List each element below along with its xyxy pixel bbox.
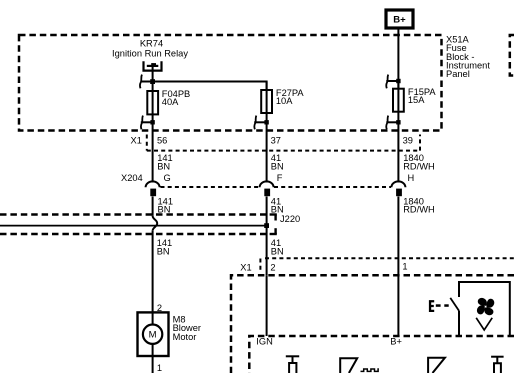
junction dot at relay/F04PB node <box>150 79 155 84</box>
wire X204 to module (1840 RD/WH run) <box>397 197 399 276</box>
junction dot J220 at wire 2 <box>264 223 269 228</box>
coil symbol (cut off, left) <box>286 356 299 373</box>
splice pack J220 dashed boundary top <box>0 215 277 221</box>
HVAC module dashed box <box>231 275 514 373</box>
splice J220 bus wire <box>0 225 267 227</box>
svg-text:Motor: Motor <box>173 332 197 342</box>
wire label 141 BN (upper) <box>157 153 173 171</box>
fuse F27PA value label <box>276 88 305 106</box>
X204 terminal arc wire 1 <box>146 181 160 187</box>
fuse F15PA value label <box>408 87 437 105</box>
svg-text:RD/WH: RD/WH <box>403 205 435 215</box>
fan variable-speed chevron <box>476 318 492 330</box>
svg-text:BN: BN <box>157 161 170 171</box>
X51A Fuse Block - Instrument Panel label <box>446 35 490 79</box>
wire 1 crossover hop at J220 <box>153 216 158 231</box>
X204 terminal arc wire 2 <box>260 181 274 187</box>
wire label 41 BN (middle) <box>271 197 284 215</box>
connector X1 bottom dotted line <box>260 258 514 271</box>
module internal wire B+ <box>397 275 399 336</box>
motor M8 box <box>138 312 169 356</box>
junction dot below F04PB <box>150 120 154 124</box>
wire hop to motor pin 2 <box>152 231 154 313</box>
svg-text:1: 1 <box>157 363 162 373</box>
svg-text:IGN: IGN <box>256 337 273 347</box>
motor M8 symbol <box>143 312 162 356</box>
svg-text:J220: J220 <box>280 214 300 224</box>
X204 terminal pin wire 1 <box>150 189 156 197</box>
svg-text:G: G <box>164 173 171 183</box>
wire label 1840 RD/WH (upper) <box>403 153 435 171</box>
driver symbol with PWM (cut off) <box>340 358 357 373</box>
feed wire from relay to fuse F27PA <box>141 82 267 91</box>
svg-text:39: 39 <box>403 135 413 145</box>
fan blade icon <box>476 297 495 316</box>
svg-text:RD/WH: RD/WH <box>403 161 435 171</box>
battery feed B+ <box>386 10 413 28</box>
svg-text:X204: X204 <box>121 173 143 183</box>
svg-text:M: M <box>149 330 157 341</box>
connector X204 dotted line <box>161 186 392 188</box>
fuse clip above F04PB <box>140 75 142 89</box>
wire motor to ground (off page) <box>152 356 154 373</box>
wire label 141 BN (middle) <box>158 197 174 215</box>
blower fan drive box <box>459 282 510 336</box>
svg-text:BN: BN <box>271 246 284 256</box>
X204 terminal arc wire 3 <box>391 181 405 187</box>
svg-text:37: 37 <box>271 135 281 145</box>
svg-text:KR74: KR74 <box>140 38 163 48</box>
splice pack J220 dashed boundary bottom <box>0 228 277 234</box>
fuse block X51A dashed box <box>19 35 442 131</box>
svg-text:B+: B+ <box>390 337 402 347</box>
coil symbol (cut off, right) <box>491 357 504 373</box>
wire label 141 BN (lower) <box>157 238 173 256</box>
unnamed module dashed box at right edge <box>510 35 514 76</box>
svg-text:10A: 10A <box>276 96 293 106</box>
wire X204 to motor (141 BN run) <box>152 197 154 216</box>
control sub-module dashed box <box>249 336 514 373</box>
junction dot below F27PA <box>264 120 268 124</box>
svg-text:F: F <box>277 173 283 183</box>
svg-text:BN: BN <box>157 246 170 256</box>
junction dot below F15PA <box>396 120 400 124</box>
fuse clip below F27PA <box>254 116 266 130</box>
svg-text:B+: B+ <box>393 14 406 25</box>
fuse F04PB <box>147 82 158 123</box>
svg-text:56: 56 <box>157 135 167 145</box>
svg-text:BN: BN <box>158 205 171 215</box>
relay KR74 contact symbol <box>144 61 162 81</box>
X204 terminal pin wire 3 <box>396 189 402 197</box>
fuse F04PB value label <box>162 89 190 107</box>
svg-text:BN: BN <box>271 161 284 171</box>
X204 terminal pin wire 2 <box>264 189 270 197</box>
junction dot above F15PA <box>396 79 400 83</box>
svg-text:2: 2 <box>270 262 275 272</box>
svg-text:Panel: Panel <box>446 69 470 79</box>
fuse clip below F15PA <box>386 116 398 130</box>
relay KR74 label <box>112 38 188 58</box>
wire label 41 BN (upper) <box>271 153 284 171</box>
svg-text:Ignition Run Relay: Ignition Run Relay <box>112 48 188 58</box>
svg-text:1: 1 <box>402 262 407 272</box>
fuse F15PA <box>393 81 404 122</box>
wire F15PA to X204 pin H <box>397 122 399 182</box>
PWM squiggle <box>361 369 379 371</box>
fan control E dashed line <box>429 300 449 312</box>
fan switch blade <box>450 298 459 311</box>
wire F04PB to X204 pin G <box>152 122 154 182</box>
wire X204 to J220 (41 BN run) <box>266 197 268 276</box>
connector X1 top dotted line <box>147 135 420 151</box>
module internal wire IGN <box>266 275 268 336</box>
motor M8 label <box>173 314 201 342</box>
svg-text:H: H <box>408 173 415 183</box>
svg-text:40A: 40A <box>162 97 179 107</box>
wire label 1840 RD/WH (lower) <box>403 197 435 215</box>
svg-text:X1: X1 <box>131 135 142 145</box>
svg-text:X1: X1 <box>240 262 251 272</box>
fuse F27PA <box>261 82 272 123</box>
fuse clip above F15PA <box>386 75 398 89</box>
wire F27PA to X204 pin F <box>266 122 268 182</box>
svg-text:15A: 15A <box>408 95 425 105</box>
driver symbol (cut off, right) <box>428 358 445 373</box>
wire label 41 BN (lower) <box>271 238 284 256</box>
fuse clip below F04PB <box>141 116 153 130</box>
wire B+ to fuse F15PA <box>397 30 399 89</box>
